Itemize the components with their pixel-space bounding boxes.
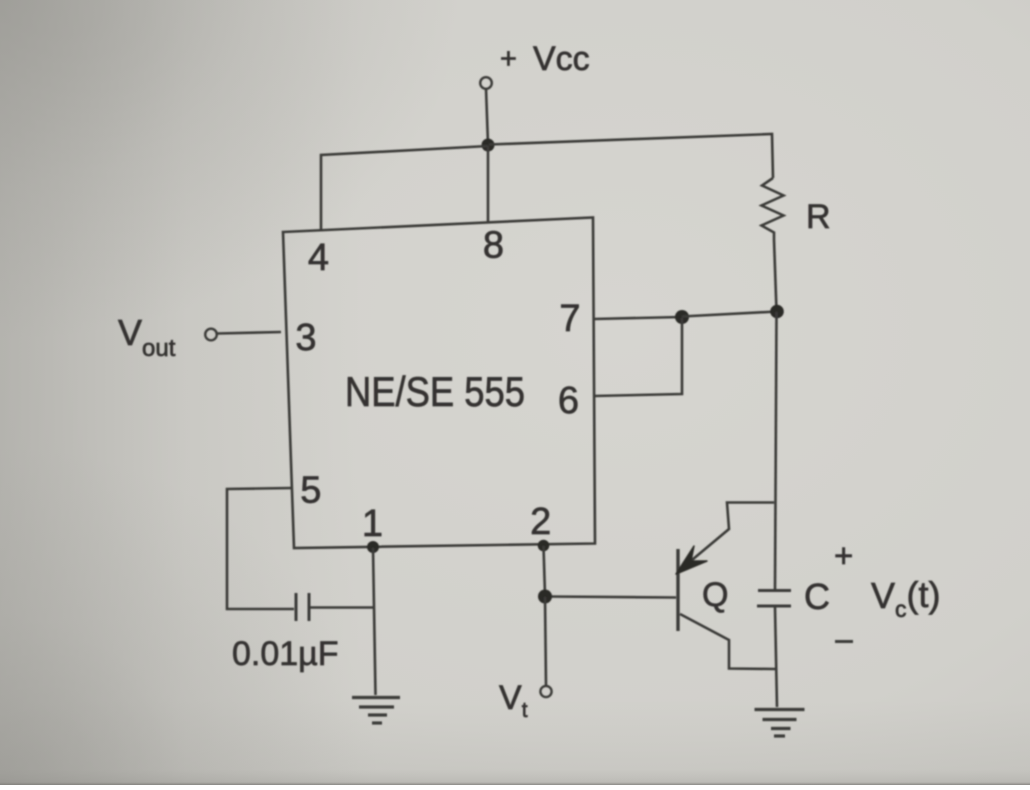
wire pin 8 lead <box>487 146 490 222</box>
transistor Q base bar <box>676 549 679 631</box>
svg-text:+: + <box>834 537 853 574</box>
svg-text:2: 2 <box>530 501 551 543</box>
transistor Q collector lead <box>680 614 775 669</box>
terminal Vout <box>205 329 217 341</box>
terminal +Vcc <box>480 77 492 89</box>
wire Vout to pin 3 <box>218 332 282 334</box>
wire pin 5 to capacitor C2 <box>227 488 294 609</box>
svg-text:Vcc: Vcc <box>533 40 590 78</box>
svg-text:5: 5 <box>300 470 321 512</box>
svg-text:Q: Q <box>702 576 728 614</box>
svg-text:C: C <box>804 576 830 617</box>
junction node 7a <box>675 310 689 324</box>
resistor R <box>762 178 784 240</box>
svg-text:1: 1 <box>362 503 383 545</box>
capacitor C bottom plate <box>757 605 791 608</box>
svg-text:7: 7 <box>559 298 580 340</box>
transistor Q emitter arrowhead <box>676 546 707 574</box>
wire pin 7 <box>594 317 681 319</box>
svg-text:+: + <box>500 43 517 75</box>
junction Vcc node <box>482 139 495 152</box>
junction node 7b <box>770 305 784 319</box>
label minus of C <box>835 640 853 643</box>
svg-text:4: 4 <box>308 237 329 279</box>
wire pin 2 down <box>544 546 546 595</box>
junction pin 2 <box>538 540 550 552</box>
wire node 7a to node 7b <box>682 312 777 317</box>
svg-text:6: 6 <box>558 380 579 422</box>
wire node Vt to terminal Vt <box>545 597 546 686</box>
junction node Vt <box>538 590 552 604</box>
wire Vcc lead <box>486 89 488 145</box>
svg-text:R: R <box>806 198 831 236</box>
IC U1 NE/SE 555 box <box>283 218 595 549</box>
wire Vcc node to pin 4 <box>321 146 488 230</box>
wire Vcc node to resistor R <box>489 134 773 178</box>
terminal Vt <box>540 686 551 697</box>
junction pin 1 <box>367 541 379 553</box>
capacitor C2 0.01uF left plate <box>295 593 298 621</box>
wire C2 to pin 1 <box>310 606 373 609</box>
svg-text:NE/SE 555: NE/SE 555 <box>345 368 525 415</box>
wire R to node 7b <box>774 240 777 311</box>
capacitor C2 0.01uF right plate <box>308 593 311 621</box>
svg-text:0.01µF: 0.01µF <box>232 635 339 673</box>
wire node 7b to capacitor C <box>775 312 777 589</box>
wire pin 1 to ground <box>373 548 376 695</box>
svg-text:8: 8 <box>483 225 504 267</box>
ground left <box>352 698 400 724</box>
wire C to ground <box>775 608 777 708</box>
wire pin 2 node to transistor base <box>546 597 676 598</box>
svg-text:Vc(t): Vc(t) <box>871 574 941 622</box>
ground right <box>755 710 805 737</box>
transistor Q emitter lead <box>680 503 774 571</box>
wire pin 6 loop <box>594 318 682 396</box>
svg-text:3: 3 <box>295 317 316 359</box>
capacitor C top plate <box>758 589 791 592</box>
